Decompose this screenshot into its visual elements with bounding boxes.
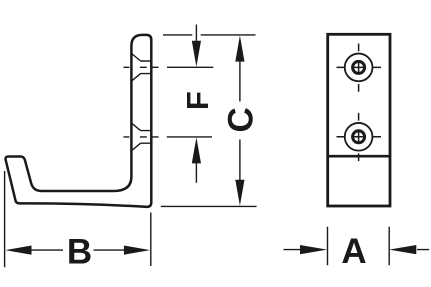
svg-text:A: A [341, 232, 366, 271]
svg-text:F: F [180, 91, 215, 110]
svg-text:B: B [67, 232, 92, 271]
svg-text:C: C [221, 107, 260, 132]
